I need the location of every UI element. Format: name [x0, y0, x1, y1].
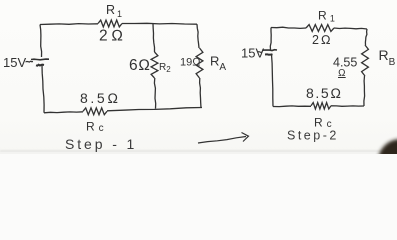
svg-text:Ω: Ω — [338, 68, 346, 79]
wire middle branch lower (left circuit) — [154, 78, 155, 109]
resistor RA (19 ohm, vertical) — [196, 48, 203, 78]
wire right-circuit top-left segment — [271, 27, 306, 28]
battery V1 short plate — [36, 65, 44, 66]
wire right branch lower (left circuit) — [200, 78, 201, 108]
resistor RC (right circuit, 8.5 ohm) — [311, 103, 331, 109]
battery V1 15V (right circuit) long plate — [262, 49, 277, 52]
wire left edge upper (left circuit) — [40, 25, 42, 58]
wire right-circuit right edge lower — [363, 76, 366, 106]
wire right-circuit top-right segment — [334, 28, 367, 29]
svg-text:15V: 15V — [3, 55, 26, 70]
resistor R2 (6 ohm, vertical) — [151, 52, 158, 78]
battery (right) short plate — [265, 53, 273, 56]
wire left-circuit bottom-right segment — [107, 108, 202, 111]
resistor R1 (left circuit, 2 ohm) — [98, 20, 122, 27]
svg-text:Step - 1: Step - 1 — [65, 136, 137, 152]
svg-text:8.5Ω: 8.5Ω — [306, 85, 343, 101]
wire left-circuit bottom-left segment — [44, 112, 83, 113]
wire right-circuit bottom-left segment — [273, 105, 311, 108]
photo artifact dark blob bottom-right corner — [378, 139, 397, 183]
svg-text:8.5Ω: 8.5Ω — [80, 90, 121, 106]
wire middle branch upper (left circuit) — [153, 24, 155, 52]
wire right-circuit left edge upper — [269, 28, 272, 51]
wire left edge lower (left circuit) — [42, 65, 44, 113]
wire right-circuit left edge lower — [272, 55, 274, 107]
wire left-circuit top-right segment — [122, 22, 197, 25]
resistor R1 (right circuit, 2 ohm) — [306, 25, 334, 32]
resistor RC (left circuit, 8.5 ohm) — [83, 108, 107, 115]
wire right branch upper (left circuit) — [197, 24, 199, 48]
svg-text:Step-2: Step-2 — [287, 129, 339, 143]
svg-text:2Ω: 2Ω — [312, 33, 333, 47]
wire left-circuit top-left segment — [40, 23, 98, 26]
svg-text:2Ω: 2Ω — [99, 28, 127, 45]
arrow from Step-1 to Step-2 — [198, 137, 246, 144]
wire right-circuit right edge upper — [365, 29, 367, 45]
resistor RB (4.55 ohm, vertical) — [362, 45, 369, 76]
svg-text:19Ω: 19Ω — [180, 57, 201, 69]
battery V1 15V (left circuit) long plate — [31, 58, 49, 61]
svg-text:6Ω: 6Ω — [129, 57, 151, 74]
wire right-circuit bottom-right segment — [331, 105, 364, 108]
